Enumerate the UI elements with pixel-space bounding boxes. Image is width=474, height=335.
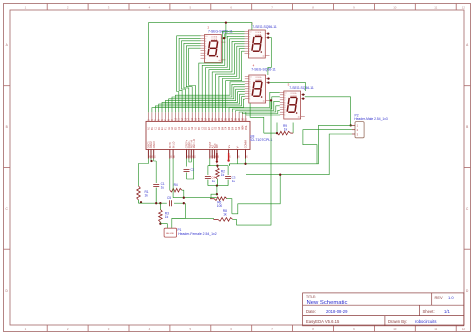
7-segment display DS3: [245, 64, 276, 103]
svg-text:A: A: [466, 43, 469, 47]
capacitor C3: [225, 175, 236, 185]
svg-text:10: 10: [393, 6, 397, 10]
svg-text:INT: INT: [216, 144, 219, 149]
svg-text:C5: C5: [167, 196, 171, 200]
svg-text:2: 2: [67, 327, 69, 331]
svg-text:5: 5: [189, 6, 191, 10]
wire D3 dp down: [237, 99, 273, 225]
svg-text:G3: G3: [216, 126, 218, 130]
svg-text:B: B: [466, 125, 468, 129]
wire IN HI to R4: [169, 159, 171, 191]
svg-text:31: 31: [245, 117, 248, 120]
svg-text:AN GND: AN GND: [166, 232, 174, 235]
wire COMM to net: [244, 159, 246, 165]
svg-text:A: A: [6, 43, 9, 47]
svg-text:C4: C4: [226, 126, 228, 130]
wire OSC cluster: [139, 159, 157, 187]
connector P2 Header-Male: [350, 122, 365, 138]
svg-text:7: 7: [271, 327, 273, 331]
svg-text:REV: REV: [435, 295, 444, 300]
svg-text:12: 12: [462, 327, 466, 331]
capacitor C1: [153, 182, 165, 203]
svg-text:POL: POL: [246, 125, 248, 130]
7-segment display DS2: [245, 22, 277, 58]
resistor R1: [137, 186, 149, 203]
svg-text:F4: F4: [236, 126, 238, 129]
svg-text:R4: R4: [174, 183, 178, 187]
svg-text:E3: E3: [209, 126, 211, 130]
svg-text:dp: dp: [263, 101, 265, 103]
svg-text:C1: C1: [155, 126, 157, 130]
wire P2 pin3 route: [246, 134, 352, 175]
svg-text:V+: V+: [228, 145, 231, 149]
svg-text:OSC3: OSC3: [153, 141, 156, 148]
svg-text:1k: 1k: [145, 193, 149, 197]
svg-text:11: 11: [434, 327, 437, 331]
wire D1 top-right riser to top bus: [223, 21, 227, 39]
capacitor C2: [184, 159, 195, 180]
wire P2 pin2 route: [303, 130, 352, 164]
svg-text:D4: D4: [229, 126, 231, 130]
svg-text:G2: G2: [192, 126, 194, 130]
svg-text:3: 3: [108, 327, 110, 331]
svg-text:3: 3: [357, 132, 359, 136]
wire D2 to D3: [267, 32, 271, 75]
svg-text:1u: 1u: [161, 186, 165, 190]
svg-text:1: 1: [357, 124, 359, 128]
svg-text:robocircuits: robocircuits: [415, 319, 436, 324]
svg-text:4: 4: [149, 6, 151, 10]
svg-text:F2: F2: [189, 126, 191, 129]
svg-text:4: 4: [149, 327, 151, 331]
svg-text:1k: 1k: [223, 213, 227, 217]
net flag INT: [216, 153, 219, 164]
svg-text:1u: 1u: [232, 179, 236, 183]
svg-text:1/1: 1/1: [444, 309, 450, 314]
svg-text:21: 21: [174, 155, 176, 158]
svg-text:C2: C2: [179, 126, 181, 130]
svg-text:dp: dp: [262, 56, 264, 58]
svg-text:EasyEDA V5.6.15: EasyEDA V5.6.15: [306, 319, 340, 324]
svg-text:2: 2: [67, 6, 69, 10]
svg-text:1k: 1k: [221, 173, 225, 177]
svg-text:1u: 1u: [212, 179, 216, 183]
capacitor C4: [205, 175, 216, 185]
svg-text:COMM: COMM: [245, 140, 248, 148]
svg-text:11: 11: [434, 6, 437, 10]
svg-text:C3: C3: [202, 126, 204, 130]
svg-text:10: 10: [393, 327, 397, 331]
svg-text:21: 21: [218, 155, 220, 158]
svg-text:ICL7107CPL1: ICL7107CPL1: [250, 138, 273, 142]
svg-text:21: 21: [155, 155, 157, 158]
svg-text:1: 1: [25, 327, 27, 331]
svg-text:B2: B2: [176, 126, 178, 130]
svg-text:AB4: AB4: [242, 125, 245, 130]
P2 labels: [354, 114, 388, 121]
svg-text:9: 9: [353, 6, 355, 10]
svg-text:21: 21: [230, 155, 232, 158]
wire trio bottom node: [208, 184, 228, 195]
svg-text:100: 100: [217, 204, 223, 208]
svg-text:B4: B4: [222, 126, 224, 130]
svg-text:A3: A3: [195, 126, 198, 130]
svg-text:21: 21: [171, 155, 173, 158]
IC U8 ICL7107CPL1: [146, 112, 250, 158]
wire D3 bottom pin to R9: [250, 103, 264, 133]
svg-text:9: 9: [353, 327, 355, 331]
wire C5 node line: [139, 202, 184, 204]
svg-text:REF LO: REF LO: [193, 139, 196, 148]
svg-text:1k: 1k: [165, 215, 169, 219]
svg-text:B: B: [6, 125, 8, 129]
svg-text:8: 8: [312, 327, 314, 331]
svg-text:F1: F1: [165, 126, 167, 129]
wire P1 pin2 loop: [172, 202, 186, 218]
svg-text:G1: G1: [169, 126, 171, 130]
svg-text:D2: D2: [182, 126, 184, 130]
svg-text:3: 3: [108, 6, 110, 10]
P1 labels: [178, 228, 217, 236]
resistor R8: [214, 209, 237, 225]
svg-text:TITLE:: TITLE:: [306, 295, 316, 299]
svg-text:dp: dp: [218, 60, 220, 62]
svg-text:A2: A2: [171, 126, 174, 130]
wire P2 pin1 route left: [230, 125, 352, 165]
svg-text:Drawn By:: Drawn By:: [388, 319, 407, 324]
svg-text:21: 21: [247, 155, 249, 158]
svg-text:C2: C2: [190, 168, 194, 172]
svg-text:7: 7: [271, 6, 273, 10]
svg-text:D1: D1: [159, 126, 161, 130]
svg-text:1.0: 1.0: [448, 295, 454, 300]
wire IN LO line: [173, 159, 217, 199]
svg-text:E1: E1: [162, 126, 164, 130]
resistor R2: [216, 168, 226, 186]
svg-text:New Schematic: New Schematic: [307, 300, 348, 306]
svg-text:7-SEG-SQ56-11: 7-SEG-SQ56-11: [289, 86, 314, 90]
wire trio top node: [208, 159, 230, 176]
svg-text:D3: D3: [206, 126, 208, 130]
title block: [303, 293, 464, 326]
U8 designator label: [250, 134, 273, 142]
svg-text:F3: F3: [212, 126, 214, 129]
svg-text:A1: A1: [148, 126, 151, 130]
svg-text:D: D: [466, 289, 469, 293]
wire bus from U8 to displays: [149, 23, 280, 115]
svg-text:G4: G4: [239, 126, 241, 130]
svg-text:E4: E4: [232, 126, 234, 130]
resistor R3: [159, 203, 170, 225]
wire R8 bottom run: [172, 217, 214, 219]
svg-text:Header-Female 2.54_1x2: Header-Female 2.54_1x2: [178, 232, 217, 236]
svg-text:Date:: Date:: [306, 309, 316, 314]
svg-text:2: 2: [357, 128, 359, 132]
svg-text:7-SEG-SQ56-11: 7-SEG-SQ56-11: [252, 25, 277, 29]
svg-text:D: D: [6, 289, 9, 293]
svg-text:Sheet:: Sheet:: [423, 309, 435, 314]
svg-text:C: C: [6, 207, 9, 211]
svg-text:6: 6: [230, 327, 232, 331]
svg-text:6: 6: [230, 6, 232, 10]
svg-text:21: 21: [195, 155, 197, 158]
svg-text:1k: 1k: [284, 128, 288, 132]
connector P1 Header-Female: [160, 218, 176, 237]
svg-text:V-: V-: [237, 146, 240, 149]
svg-text:B1: B1: [152, 126, 154, 130]
wire D3 to D4: [267, 77, 305, 91]
svg-text:Header-Male 2.54_1x3: Header-Male 2.54_1x3: [354, 117, 388, 121]
resistor R4: [170, 183, 184, 198]
svg-text:dp: dp: [298, 117, 300, 119]
svg-text:B3: B3: [199, 126, 201, 130]
svg-text:1: 1: [25, 6, 27, 10]
wire branch down from node: [232, 174, 281, 214]
svg-text:7-SEG-SQ56-11: 7-SEG-SQ56-11: [251, 68, 276, 72]
resistor R6: [210, 194, 232, 214]
svg-text:2018-08-29: 2018-08-29: [326, 309, 348, 314]
svg-text:E2: E2: [186, 126, 188, 130]
svg-text:8: 8: [312, 6, 314, 10]
svg-text:12: 12: [462, 6, 466, 10]
svg-text:C: C: [466, 207, 469, 211]
capacitor C5: [167, 196, 171, 206]
svg-text:IN LO: IN LO: [172, 142, 175, 149]
7-segment display DS4: [280, 82, 314, 119]
resistor R9: [264, 123, 293, 135]
wire D4 right to P2 area: [302, 93, 350, 125]
7-segment display DS1: [201, 26, 233, 63]
svg-text:21: 21: [239, 155, 241, 158]
net flag V+: [227, 153, 229, 162]
svg-text:A4: A4: [218, 126, 221, 130]
wire V- to net: [237, 159, 239, 164]
svg-text:5: 5: [189, 327, 191, 331]
